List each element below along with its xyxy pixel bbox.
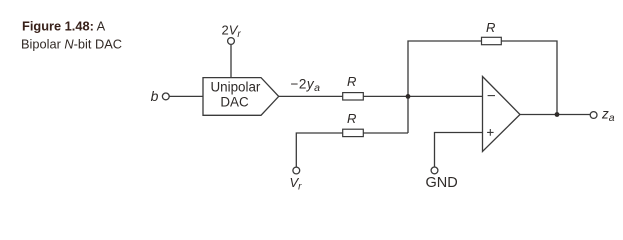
svg-text:2Vr: 2Vr <box>222 23 242 41</box>
svg-text:R: R <box>347 74 356 89</box>
svg-text:za: za <box>601 107 615 125</box>
svg-text:Unipolar: Unipolar <box>211 79 261 94</box>
wire: op-amp output to za terminal <box>520 114 590 116</box>
svg-text:Vr: Vr <box>290 175 303 193</box>
terminal: b input <box>151 88 170 104</box>
svg-text:b: b <box>151 88 159 104</box>
svg-text:−2ya: −2ya <box>291 76 321 94</box>
wire: resistor R to op-amp inverting input through node <box>363 95 482 97</box>
node J1 (summing junction) <box>406 94 411 99</box>
terminal: GND <box>426 167 458 191</box>
terminal: 2Vr <box>222 23 242 45</box>
plus input marker <box>487 129 494 136</box>
svg-text:Bipolar N-bit DAC: Bipolar N-bit DAC <box>21 37 122 52</box>
figure caption <box>21 19 122 52</box>
node J2 (output junction) <box>555 112 560 117</box>
minus input marker <box>488 95 495 97</box>
resistor R2 (Vr branch) <box>343 111 364 137</box>
resistor R1 (input, from -2ya) <box>343 74 364 100</box>
svg-text:GND: GND <box>426 175 458 191</box>
terminal: za output <box>590 107 615 125</box>
resistor R3 (feedback) <box>482 20 502 45</box>
svg-text:R: R <box>486 20 495 35</box>
svg-text:R: R <box>347 111 356 126</box>
wire: 2Vr terminal down to DAC top <box>230 45 232 78</box>
wire: Vr branch to lower resistor R <box>296 133 408 167</box>
terminal: Vr <box>290 167 303 193</box>
wire: DAC output to resistor R (input) <box>279 95 343 97</box>
svg-text:Figure 1.48: A: Figure 1.48: A <box>22 19 106 34</box>
wire: feedback top path with risers <box>408 41 557 133</box>
block U1: Unipolar DAC <box>203 78 279 116</box>
wire: b terminal to DAC input <box>169 95 203 97</box>
op-amp U2 <box>483 77 521 152</box>
svg-text:DAC: DAC <box>220 94 249 109</box>
wire: GND branch to op-amp non-inverting input <box>435 133 483 168</box>
